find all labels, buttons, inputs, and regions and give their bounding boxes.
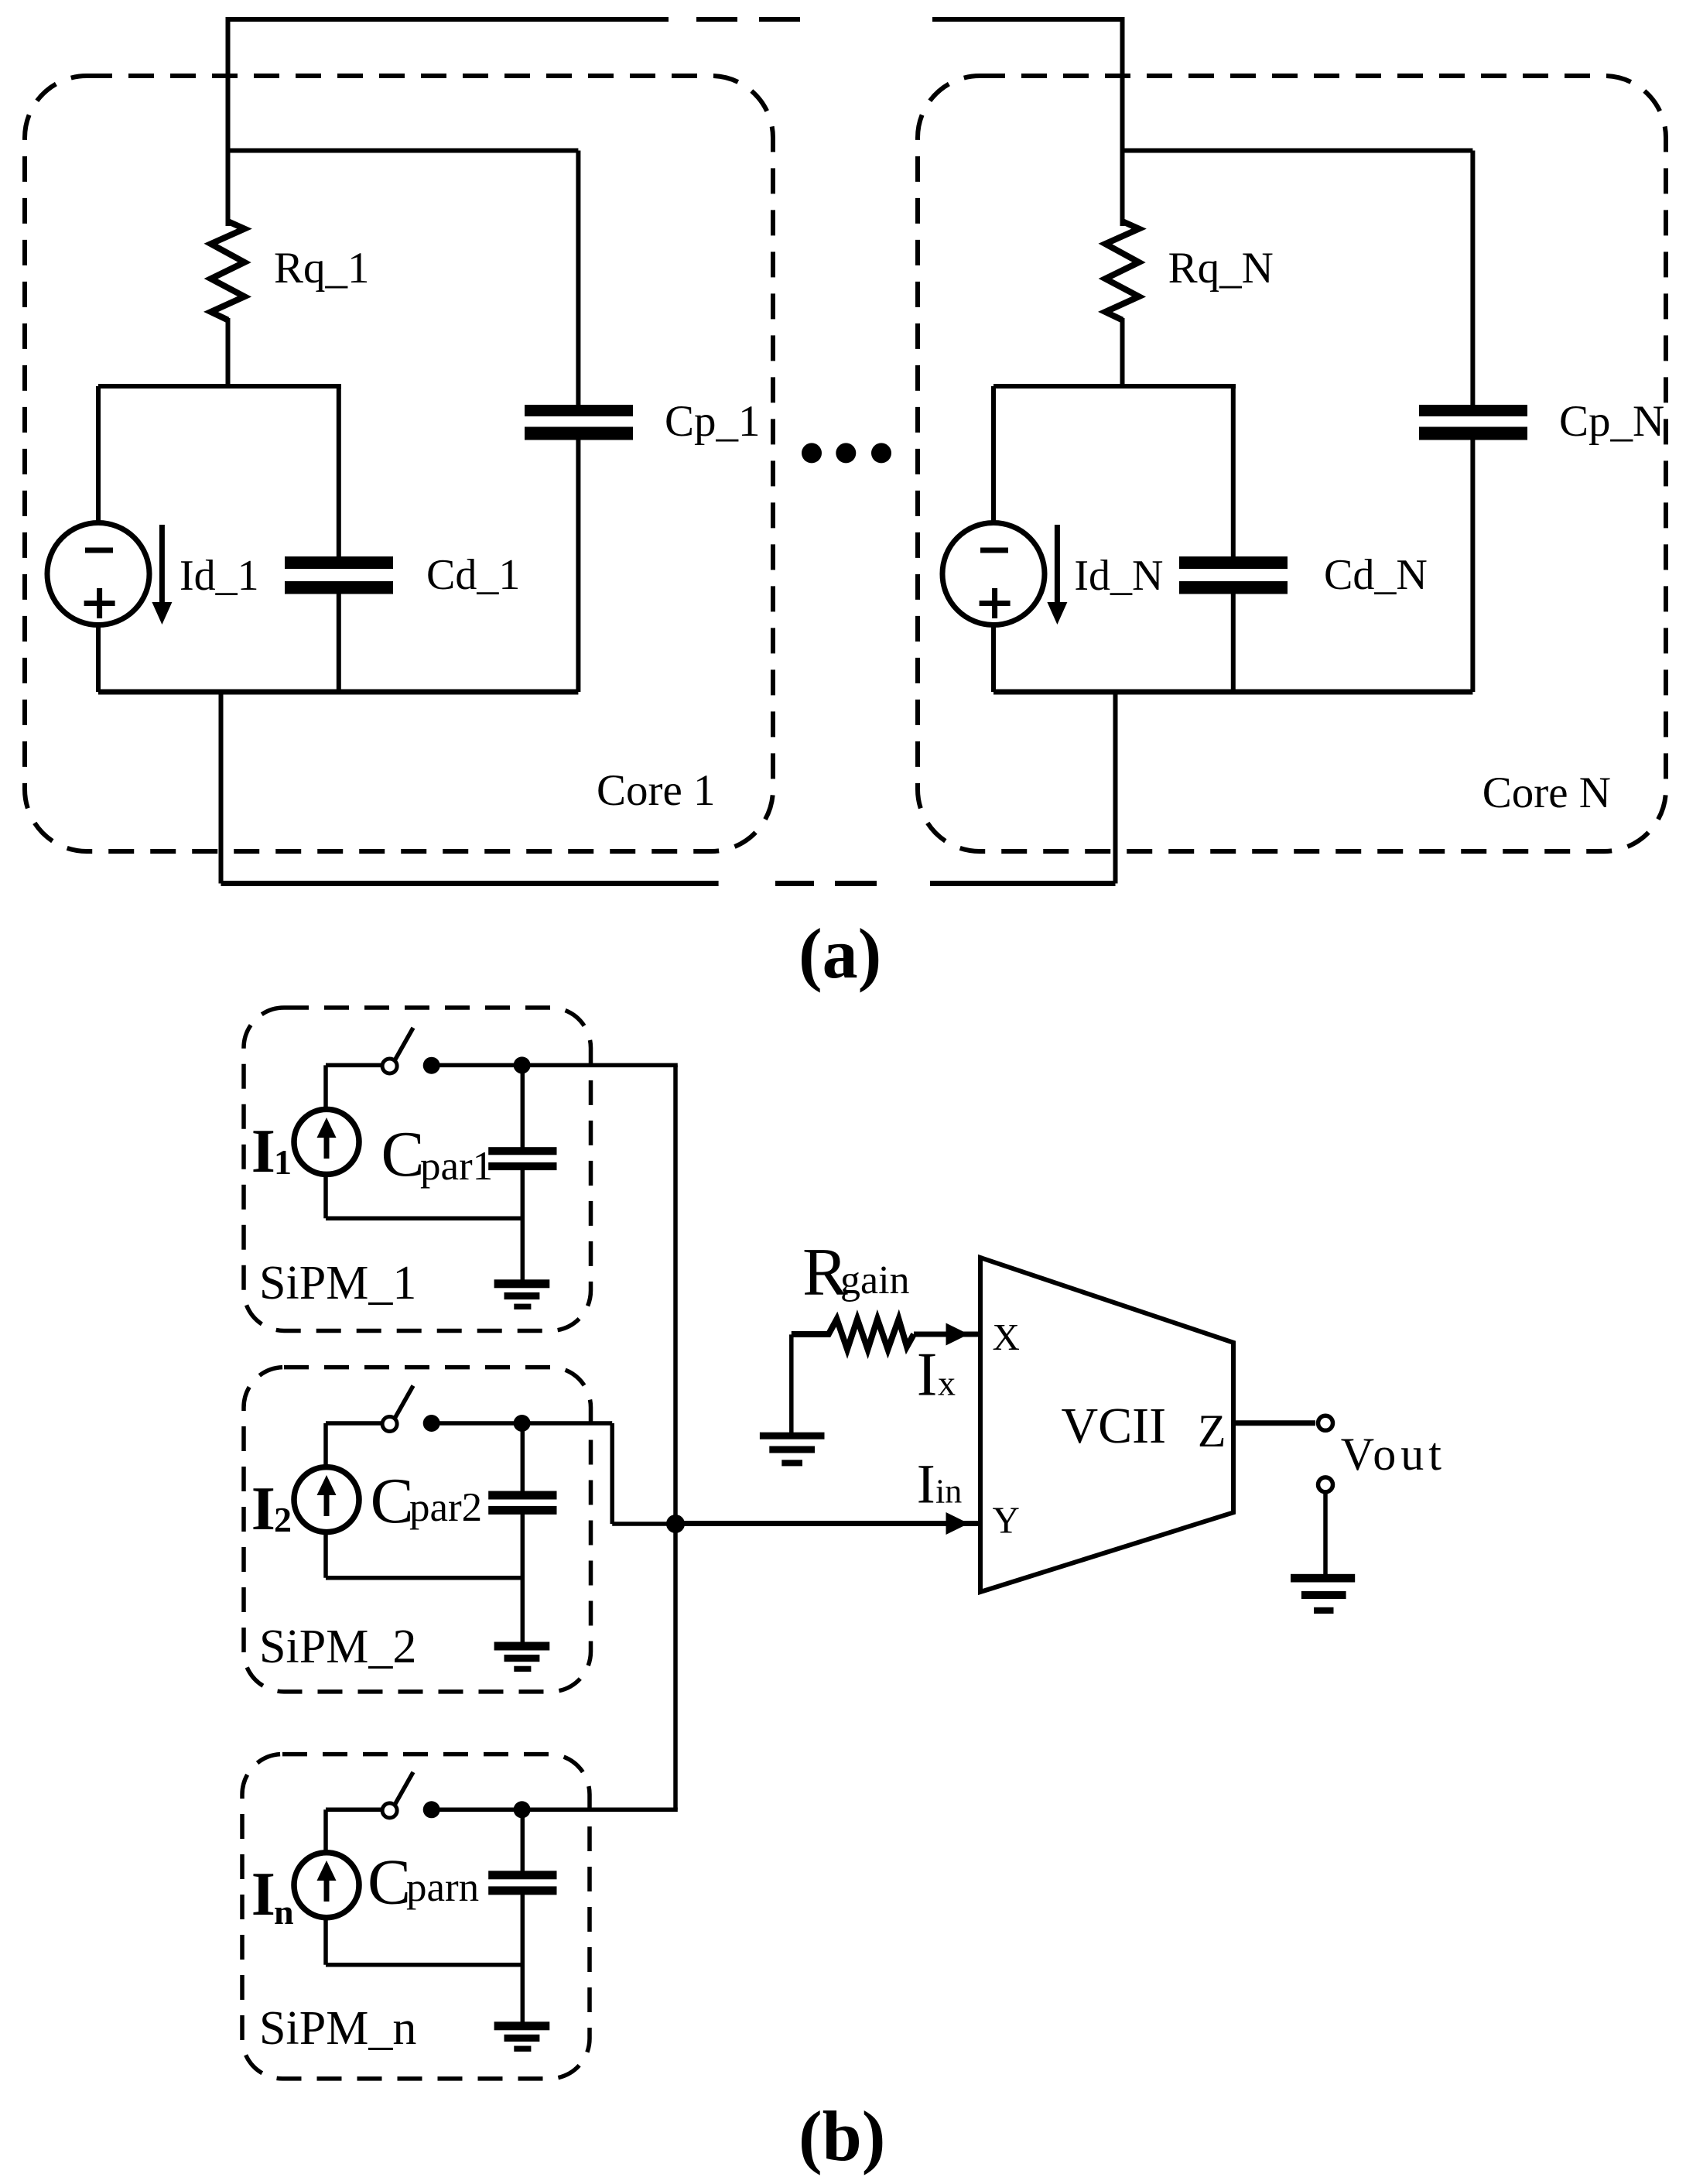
wire inner bottom rail Core 1 bbox=[98, 690, 578, 695]
svg-text:Core 1: Core 1 bbox=[597, 766, 716, 815]
svg-text:Rq_1: Rq_1 bbox=[274, 244, 370, 293]
wire switch to bus SiPM_n bbox=[432, 1808, 678, 1813]
node junction SiPM_n bbox=[514, 1801, 531, 1818]
svg-text:1: 1 bbox=[274, 1142, 292, 1182]
svg-text:(a): (a) bbox=[799, 914, 881, 993]
wire inner bottom rail SiPM_n bbox=[326, 1963, 522, 1967]
wire top bus of figure (a) bbox=[226, 17, 1124, 22]
svg-text:Id_1: Id_1 bbox=[180, 552, 259, 600]
wire inner top rail to Cp_1 bbox=[228, 149, 579, 153]
arrow current direction Id_N bbox=[1047, 525, 1163, 625]
Core 1 dashed enclosure bbox=[25, 76, 773, 851]
label Ix bbox=[917, 1341, 956, 1409]
terminal Vout upper bbox=[1318, 1415, 1333, 1430]
node junction SiPM_1 bbox=[514, 1056, 531, 1073]
svg-text:C: C bbox=[381, 1118, 425, 1190]
wire inner top rail Core N bbox=[993, 384, 1236, 389]
arrow Iin into Y bbox=[946, 1512, 970, 1535]
svg-text:(b): (b) bbox=[799, 2097, 885, 2175]
svg-text:Core N: Core N bbox=[1483, 769, 1611, 817]
wire switch to jog SiPM_2 bbox=[432, 1421, 613, 1426]
ground SiPM_n bbox=[494, 2021, 550, 2052]
ground SiPM_1 bbox=[494, 1279, 550, 1309]
wire resistor to inner node Core N bbox=[1120, 318, 1125, 389]
wire Rgain to X bbox=[914, 1332, 978, 1337]
svg-text:Y: Y bbox=[993, 1499, 1020, 1542]
svg-text:I: I bbox=[251, 1118, 275, 1186]
svg-text:2: 2 bbox=[274, 1500, 292, 1539]
wire inner top rail to Cp_N bbox=[1123, 149, 1473, 153]
svg-text:I: I bbox=[917, 1453, 935, 1515]
SiPM_n dashed enclosure bbox=[242, 1754, 590, 2079]
current source Id_N bbox=[942, 386, 1045, 692]
svg-text:x: x bbox=[938, 1364, 956, 1403]
svg-text:I: I bbox=[917, 1341, 938, 1409]
wire drop Core N to bottom bus bbox=[1113, 692, 1118, 884]
op-amp VCII trapezoid bbox=[980, 1258, 1233, 1592]
svg-text:SiPM_n: SiPM_n bbox=[259, 2002, 416, 2055]
Core N dashed enclosure bbox=[918, 76, 1666, 851]
node junction Y rail bbox=[666, 1515, 685, 1533]
svg-text:Rq_N: Rq_N bbox=[1168, 244, 1274, 293]
ground Rgain bbox=[760, 1334, 825, 1466]
ground SiPM_2 bbox=[494, 1642, 550, 1672]
capacitor Cd_1 bbox=[285, 386, 520, 692]
svg-text:VCII: VCII bbox=[1062, 1398, 1167, 1454]
capacitor Cp_1 bbox=[525, 151, 761, 693]
svg-text:Vout: Vout bbox=[1341, 1429, 1446, 1480]
wire jog down SiPM_2 to Y rail bbox=[612, 1423, 675, 1524]
svg-text:Cp_1: Cp_1 bbox=[665, 397, 761, 446]
switch S1 bbox=[326, 1028, 440, 1074]
current source I1 bbox=[251, 1065, 359, 1218]
wire bottom bus of figure (a) bbox=[221, 881, 1116, 886]
svg-text:Id_N: Id_N bbox=[1074, 552, 1163, 600]
svg-text:X: X bbox=[993, 1316, 1020, 1358]
current source In bbox=[251, 1809, 359, 1964]
label Iin bbox=[917, 1453, 963, 1515]
switch Sn bbox=[326, 1772, 440, 1819]
svg-text:Cd_1: Cd_1 bbox=[426, 551, 520, 599]
wire lower terminal to ground bbox=[1323, 1493, 1328, 1575]
arrow Ix into X bbox=[946, 1323, 970, 1346]
svg-text:I: I bbox=[251, 1475, 275, 1543]
svg-text:I: I bbox=[251, 1861, 275, 1929]
wire Y input rail bbox=[675, 1521, 978, 1526]
resistor Rq_N bbox=[1106, 221, 1140, 320]
svg-text:Cp_N: Cp_N bbox=[1559, 397, 1664, 446]
capacitor Cpar2 bbox=[371, 1423, 557, 1642]
svg-text:parn: parn bbox=[406, 1865, 479, 1910]
current source I2 bbox=[251, 1423, 359, 1578]
svg-text:SiPM_2: SiPM_2 bbox=[259, 1621, 416, 1673]
wire inner bottom rail SiPM_1 bbox=[326, 1216, 522, 1220]
svg-text:C: C bbox=[371, 1465, 414, 1537]
svg-text:in: in bbox=[935, 1472, 962, 1510]
svg-text:n: n bbox=[274, 1892, 294, 1932]
node junction SiPM_2 bbox=[514, 1415, 531, 1432]
wire inner bottom rail SiPM_2 bbox=[326, 1576, 522, 1580]
wire Z output bbox=[1233, 1420, 1315, 1426]
wire bus vertical joining SiPM outputs bbox=[673, 1065, 678, 1809]
switch S2 bbox=[326, 1386, 440, 1433]
current source Id_1 bbox=[47, 386, 149, 692]
svg-text:Z: Z bbox=[1198, 1405, 1226, 1457]
arrow current direction Id_1 bbox=[152, 525, 258, 625]
wire inner bottom rail Core N bbox=[993, 690, 1472, 695]
svg-text:gain: gain bbox=[840, 1258, 910, 1303]
resistor Rq_1 bbox=[211, 221, 245, 320]
SiPM_1 dashed enclosure bbox=[244, 1008, 591, 1331]
capacitor Cd_N bbox=[1179, 386, 1428, 692]
ground Vout bbox=[1291, 1574, 1355, 1614]
wire drop Core 1 to bottom bus bbox=[219, 692, 224, 884]
svg-text:SiPM_1: SiPM_1 bbox=[259, 1257, 416, 1309]
svg-text:par2: par2 bbox=[409, 1485, 482, 1530]
wire inner top rail Core 1 bbox=[98, 384, 341, 389]
wire main vertical Core N bbox=[1120, 17, 1125, 226]
resistor Rgain bbox=[792, 1235, 914, 1350]
wire resistor to inner node bbox=[226, 318, 231, 389]
node dots continuation between cores bbox=[802, 443, 891, 463]
svg-text:C: C bbox=[368, 1847, 411, 1919]
svg-text:Cd_N: Cd_N bbox=[1324, 551, 1428, 599]
capacitor Cp_N bbox=[1419, 151, 1664, 693]
SiPM_2 dashed enclosure bbox=[244, 1368, 591, 1692]
svg-text:par1: par1 bbox=[420, 1144, 493, 1189]
wire switch to bus SiPM_1 bbox=[432, 1063, 678, 1068]
terminal Vout lower bbox=[1318, 1477, 1333, 1492]
capacitor Cpar1 bbox=[381, 1065, 557, 1280]
capacitor Cparn bbox=[368, 1809, 557, 2022]
wire main vertical Core 1 bbox=[226, 17, 231, 226]
